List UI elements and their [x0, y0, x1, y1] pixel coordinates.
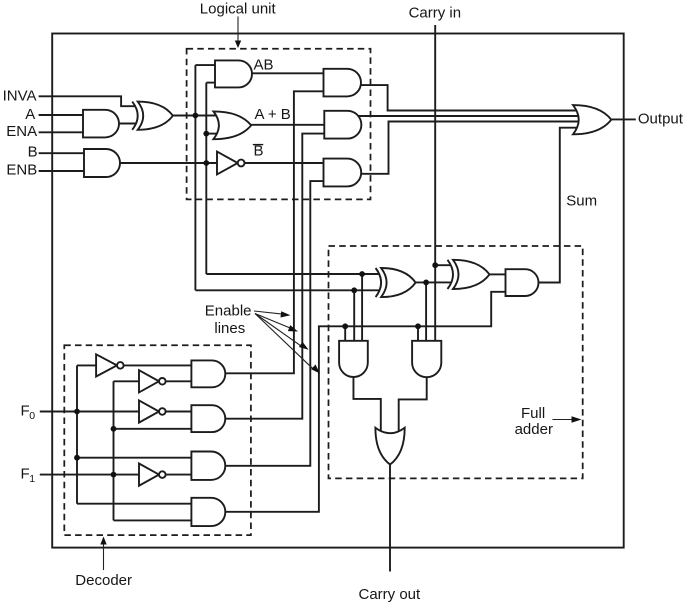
junction XOR1 output branch — [423, 280, 429, 286]
decoder inverter inv3 triangle — [139, 400, 159, 422]
wire XOR1 output to XOR2 lower input — [416, 281, 452, 283]
wire B' to fulladder XOR1 upper input — [206, 273, 379, 275]
wire Carry out — [389, 463, 391, 572]
wire AB-AND output to enable AND G1 — [250, 72, 324, 74]
logical unit dashed box — [187, 49, 371, 200]
wire inv1 output to decoder gate1 input 1 — [124, 364, 192, 366]
wire G3 output to output OR input 3 — [358, 122, 579, 174]
wire A' to fulladder XOR1 lower input — [195, 289, 379, 291]
junction enable to carry AND left — [342, 323, 348, 329]
svg-text:Decoder: Decoder — [75, 572, 132, 589]
wire inv4 output to decoder gate3 input 2 — [166, 474, 192, 476]
wire node A' vertical bus — [194, 65, 196, 290]
svg-text:Carry out: Carry out — [359, 586, 422, 603]
arrow from Decoder label to box — [103, 543, 105, 570]
arrow from Logical unit label to box — [237, 17, 239, 43]
svg-text:Sum: Sum — [566, 193, 597, 210]
decoder AND gate2 — [191, 405, 225, 432]
AND gate AB — [215, 60, 252, 87]
svg-text:Logical unit: Logical unit — [200, 0, 277, 17]
decoder AND gate3 — [191, 452, 225, 480]
svg-text:A + B: A + B — [255, 106, 291, 123]
label Bbar overline — [253, 144, 263, 146]
carry OR gate (vertical, pointing down) — [375, 428, 404, 465]
enable AND G2 (A+B) — [324, 111, 361, 139]
XOR gate INVA body — [138, 102, 173, 130]
wire INVA input to XOR top input — [39, 96, 136, 106]
fulladder XOR1 body — [381, 268, 416, 297]
wire A+B OR output to enable AND G2 — [249, 124, 324, 126]
svg-text:INVA: INVA — [3, 88, 37, 105]
svg-text:Enable: Enable — [205, 303, 252, 320]
wire enable line 3 from decoder gate3 — [224, 181, 324, 466]
svg-text:lines: lines — [214, 320, 245, 337]
enable AND G3 (Bbar) — [324, 159, 362, 187]
wire B' branch down to carry AND left — [361, 274, 363, 341]
wire F0 to inverter inv1 — [77, 364, 97, 366]
arrow from Full adder label to box — [552, 419, 573, 421]
junction F1 line — [111, 472, 117, 478]
decoder inverter inv3 bubble — [159, 408, 166, 415]
wire F1 input to inverter inv4 — [40, 474, 139, 476]
wire F1 to decoder gate4 input 2 — [114, 519, 192, 521]
wire carry AND left output to carry OR — [353, 375, 380, 433]
AND gate B/ENB — [84, 149, 120, 177]
arrow enable lines 1 — [254, 311, 284, 314]
wire Sum: sum AND output up to output OR — [537, 128, 578, 283]
full adder dashed box — [329, 246, 583, 478]
decoder inverter inv2 triangle — [139, 370, 159, 392]
wire Output lead — [611, 118, 636, 120]
svg-text:Full: Full — [521, 405, 545, 422]
output OR gate — [573, 105, 611, 134]
wire A' branch down to carry AND left — [353, 290, 355, 341]
junction F0 line — [74, 409, 80, 415]
OR gate A+B — [213, 111, 251, 139]
wire carry AND right output to carry OR — [399, 375, 427, 433]
wire inv2 output to decoder gate1 input 2 — [166, 380, 192, 382]
decoder inverter inv4 bubble — [159, 471, 166, 478]
fulladder XOR2 outer arc — [448, 260, 454, 289]
wire F1 to decoder gate2 input 2 — [114, 428, 192, 430]
wire F1 to inverter inv2 — [114, 380, 140, 382]
carry AND gate left (vertical) — [339, 341, 368, 377]
svg-text:Carry in: Carry in — [409, 4, 462, 21]
junction B' branch in adder — [359, 271, 365, 277]
wire carry-in branch to XOR2 top input — [435, 264, 451, 266]
arrow enable lines 3 — [255, 314, 302, 347]
decoder inverter inv1 triangle — [96, 354, 117, 376]
sum AND gate — [506, 269, 539, 296]
wire enable line 4 from decoder gate4 to adder enable — [224, 292, 506, 512]
wire F0 to decoder gate3 input 1 — [77, 457, 191, 459]
decoder inverter inv1 bubble — [117, 362, 124, 369]
wire XOR1 out branch down to carry AND right — [425, 282, 427, 340]
enable AND G1 (AB) — [324, 69, 361, 97]
wire B' to AB-AND input 2 — [206, 82, 216, 84]
arrow enable lines 4 — [255, 314, 314, 370]
wire enable line 1 from decoder gate1 — [224, 91, 324, 373]
junction A' branch in adder — [351, 287, 357, 293]
wire A' to AB-AND input 1 — [195, 64, 216, 66]
arrow enable lines 2 — [255, 314, 291, 329]
junction node B' at OR input branch — [203, 131, 209, 137]
wire F1 vertical bus — [113, 381, 115, 520]
NOT gate Bbar bubble — [238, 160, 245, 167]
svg-text:AB: AB — [254, 57, 274, 74]
junction enable to carry AND right — [415, 323, 421, 329]
wire G1 output to output OR input 1 — [358, 85, 576, 110]
wire ENB input — [39, 170, 84, 172]
wire F0 to decoder gate4 input 1 — [77, 503, 191, 505]
wire node A' XOR output to OR gate — [173, 115, 216, 117]
carry AND gate right (vertical) — [412, 341, 441, 377]
wire node B' vertical bus — [205, 83, 207, 274]
fulladder XOR2 body — [453, 260, 490, 289]
wire node B' from B-AND output to NOT input — [118, 162, 218, 164]
svg-text:adder: adder — [515, 421, 553, 438]
wire XOR2 output to sum AND — [490, 273, 506, 275]
wire G2 output to output OR input 2 — [356, 115, 578, 117]
wire enable line 2 from decoder gate2 — [224, 134, 324, 419]
wire F0 input to inverter inv3 — [40, 411, 139, 413]
decoder inverter inv4 triangle — [139, 464, 159, 486]
decoder dashed box — [64, 345, 251, 535]
junction F1 to gate2 — [111, 426, 117, 432]
junction F0 to gate3 — [74, 455, 80, 461]
wire NOT output Bbar to enable AND G3 — [245, 162, 324, 164]
XOR gate INVA (outer arc) — [132, 102, 138, 130]
wire inv3 output to decoder gate2 input 1 — [166, 411, 192, 413]
decoder AND gate4 — [191, 498, 225, 526]
wire enable branch down to carry AND right — [417, 326, 419, 341]
outer chip box — [52, 34, 624, 548]
decoder inverter inv2 bubble — [159, 378, 166, 385]
AND gate A/ENA — [83, 110, 119, 138]
wire ENA input — [39, 131, 83, 133]
NOT gate Bbar triangle — [217, 152, 238, 175]
junction carry-in to XOR2 — [432, 262, 438, 268]
svg-text:ENA: ENA — [6, 123, 37, 140]
wire B input — [39, 152, 84, 154]
wire B' to OR gate input 2 — [206, 133, 217, 135]
wire Carry in vertical — [434, 25, 436, 341]
svg-text:B: B — [28, 144, 38, 161]
svg-text:A: A — [25, 106, 35, 123]
junction node B' on B line — [203, 160, 209, 166]
svg-text:1: 1 — [29, 473, 35, 485]
svg-text:ENB: ENB — [6, 162, 37, 179]
junction node A' at XOR output — [193, 113, 199, 119]
fulladder XOR1 outer arc — [376, 268, 382, 297]
decoder AND gate1 — [191, 360, 225, 387]
wire A input — [39, 114, 83, 116]
wire A-AND output to XOR bottom input — [117, 123, 136, 125]
wire enable branch down to carry AND left — [344, 326, 346, 341]
svg-text:Output: Output — [638, 110, 684, 127]
wire F0 vertical bus — [76, 365, 78, 503]
svg-text:0: 0 — [29, 410, 35, 422]
